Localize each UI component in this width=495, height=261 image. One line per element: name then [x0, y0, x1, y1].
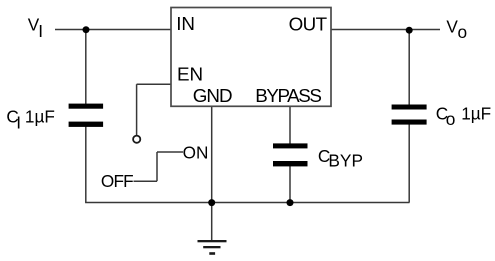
svg-text:o: o [458, 22, 468, 42]
svg-text:BYP: BYP [328, 151, 363, 171]
svg-text:OFF: OFF [101, 171, 133, 191]
svg-text:OUT: OUT [289, 13, 328, 34]
svg-text:I: I [16, 113, 21, 133]
svg-text:I: I [38, 21, 43, 41]
svg-text:ON: ON [183, 142, 209, 162]
svg-text:IN: IN [176, 13, 195, 34]
svg-text:1µF: 1µF [25, 106, 55, 126]
svg-text:GND: GND [193, 85, 232, 106]
svg-text:o: o [446, 109, 456, 129]
svg-text:BYPASS: BYPASS [255, 85, 321, 106]
svg-text:EN: EN [177, 64, 203, 85]
svg-text:1µF: 1µF [461, 104, 491, 124]
